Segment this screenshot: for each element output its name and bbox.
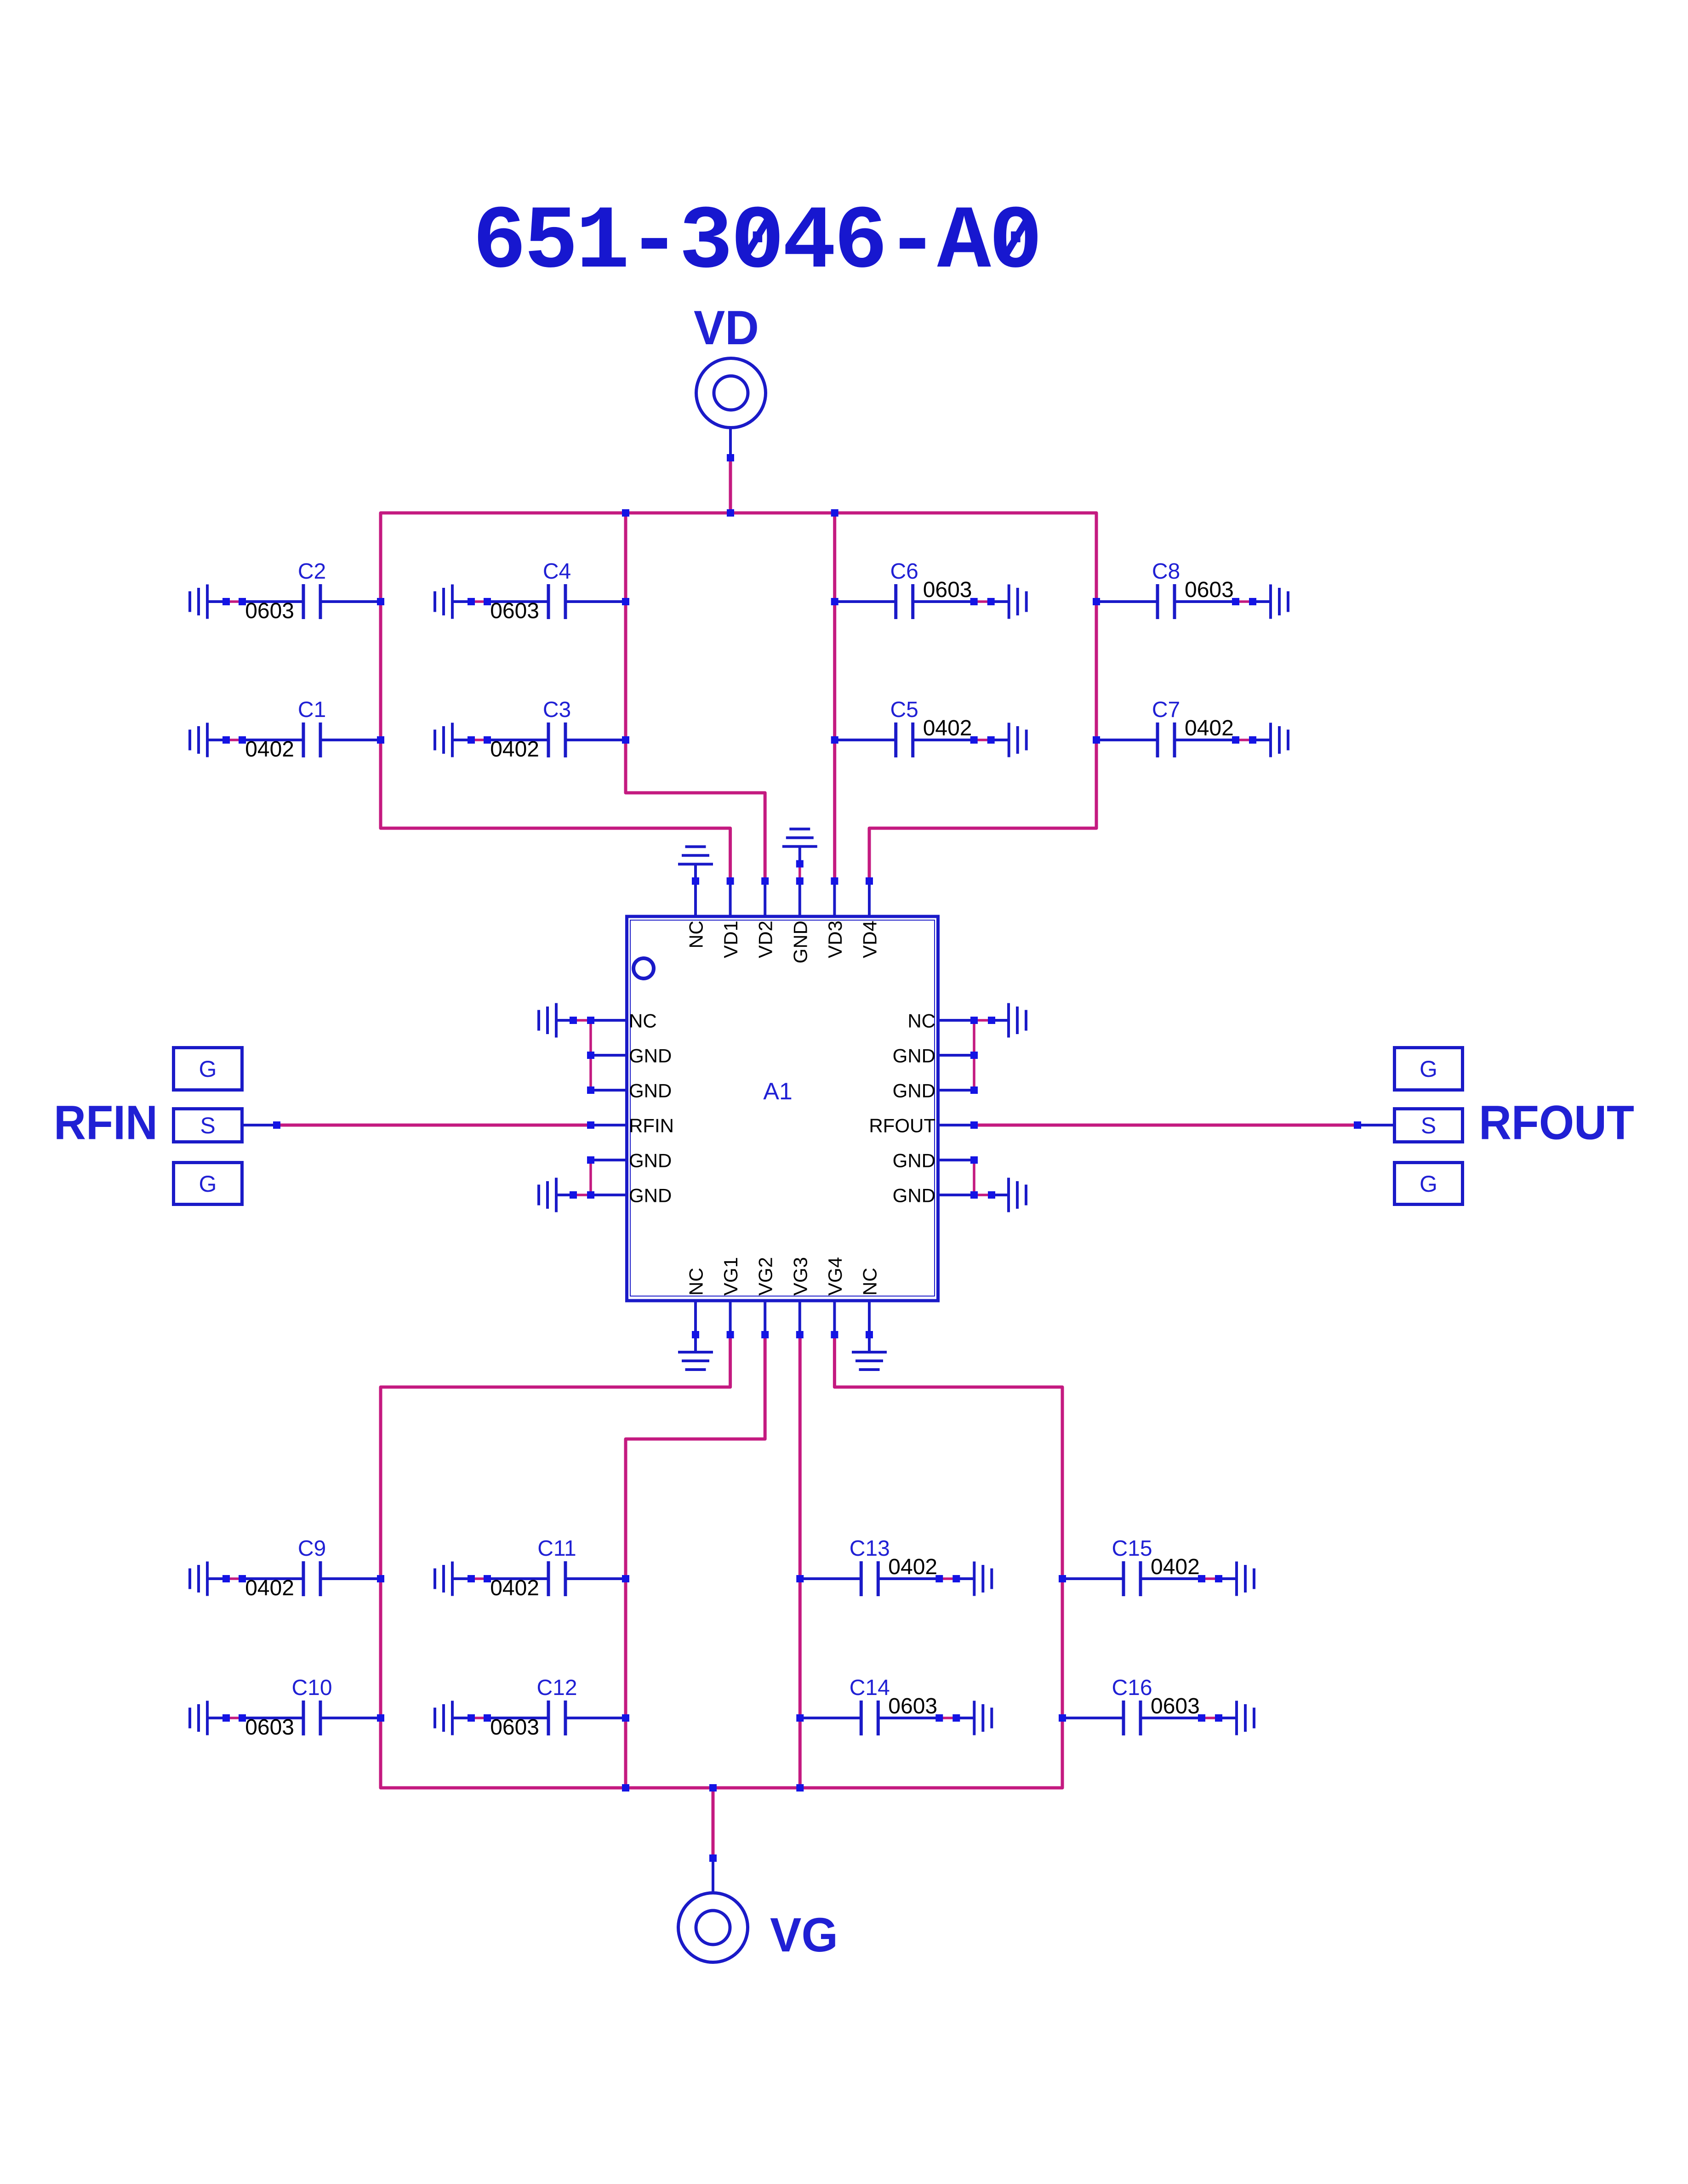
svg-text:C9: C9 bbox=[298, 1536, 326, 1561]
ground (for C4) bbox=[451, 585, 454, 619]
svg-text:GND: GND bbox=[629, 1045, 672, 1067]
svg-text:NC: NC bbox=[629, 1010, 657, 1032]
wire pin lead VG4 (bottom) bbox=[833, 1302, 836, 1335]
svg-text:GND: GND bbox=[893, 1150, 935, 1172]
wire VG2 net (C11/C12 bus with jog) bbox=[626, 1335, 765, 1788]
junction C1 bus bbox=[377, 736, 384, 744]
junction C4 ground side A bbox=[468, 598, 475, 605]
pin pad GND (left) bbox=[587, 1156, 594, 1164]
pin pad NC (top) bbox=[692, 877, 699, 885]
connector VD (inner ring) bbox=[714, 376, 748, 410]
svg-text:C15: C15 bbox=[1112, 1536, 1152, 1561]
wire pin lead NC (bottom) bbox=[694, 1302, 697, 1335]
ground (for C9) bbox=[206, 1562, 209, 1596]
svg-text:651-3046-A0: 651-3046-A0 bbox=[473, 192, 1043, 294]
junction C8 ground side B bbox=[1249, 598, 1256, 605]
wire C7 right lead bbox=[1175, 739, 1236, 741]
svg-text:S: S bbox=[1421, 1113, 1436, 1138]
svg-text:G: G bbox=[1420, 1056, 1437, 1082]
wire C4 ground stem bbox=[452, 600, 471, 603]
capacitor C1 bbox=[302, 722, 305, 757]
junction VD feed / top bus bbox=[727, 509, 734, 517]
op-amp/IC A1 body (outer) bbox=[627, 916, 938, 1301]
junction C1 ground side B bbox=[239, 736, 246, 744]
wire right lower pin trunk bbox=[973, 1160, 975, 1195]
svg-text:RFIN: RFIN bbox=[54, 1096, 158, 1150]
wire C13 right lead bbox=[878, 1577, 939, 1580]
svg-text:0603: 0603 bbox=[245, 1715, 294, 1740]
junction C16 bus bbox=[1059, 1714, 1066, 1722]
wire C2 right lead bbox=[320, 600, 381, 603]
svg-text:0603: 0603 bbox=[888, 1694, 937, 1718]
svg-text:C14: C14 bbox=[850, 1676, 890, 1700]
svg-text:C12: C12 bbox=[536, 1676, 577, 1700]
pad box G (RFOUT bottom) bbox=[1395, 1163, 1463, 1205]
junction C12 ground side A bbox=[468, 1714, 475, 1722]
svg-text:C16: C16 bbox=[1112, 1676, 1152, 1700]
wire C8 ground stem bbox=[1253, 600, 1271, 603]
wire pin lead GND (right) bbox=[940, 1194, 974, 1196]
IC A1 pin-1 mark bbox=[633, 958, 654, 978]
svg-text:G: G bbox=[199, 1171, 217, 1197]
ground (for C5) bbox=[1008, 723, 1010, 757]
pin pad GND (right) bbox=[970, 1156, 978, 1164]
junction C7 ground side A bbox=[1232, 736, 1239, 744]
junction C10 bus bbox=[377, 1714, 384, 1722]
wire pin lead VD1 (top) bbox=[729, 881, 732, 915]
junction C7 bus bbox=[1093, 736, 1100, 744]
junction C15 bus bbox=[1059, 1575, 1066, 1582]
capacitor C12 bbox=[547, 1701, 550, 1735]
ground (left upper, NC/GND) bbox=[555, 1003, 558, 1038]
capacitor C14 bbox=[860, 1701, 863, 1735]
wire left upper pin trunk bbox=[589, 1020, 592, 1090]
ground (for C13) bbox=[973, 1562, 975, 1596]
wire left upper ground stem bbox=[556, 1019, 573, 1022]
junction C16 ground side A bbox=[1198, 1714, 1205, 1722]
wire pin lead GND (right) bbox=[940, 1159, 974, 1161]
wire left lower ground link bbox=[573, 1194, 591, 1196]
wire VD bus loop (C1/C2 bus, top bus, C7/C8 bus, VD1/VD4 jogs) bbox=[381, 513, 1096, 881]
wire C7 ground stem bbox=[1253, 739, 1271, 741]
junction right upper ground bbox=[988, 1017, 995, 1024]
junction C11 bus bbox=[622, 1575, 629, 1582]
wire RFIN net bbox=[277, 1124, 591, 1127]
wire pin lead GND (right) bbox=[940, 1054, 974, 1057]
ground (bottom-right NC pin) bbox=[852, 1351, 887, 1354]
svg-text:G: G bbox=[199, 1056, 217, 1082]
pin pad VD3 (top) bbox=[831, 877, 838, 885]
wire C12 right lead bbox=[565, 1717, 626, 1719]
junction VG feed / bottom bus bbox=[709, 1784, 717, 1792]
wire VG connector stem bbox=[712, 1858, 714, 1893]
wire pin lead NC (left) bbox=[591, 1019, 625, 1022]
pin pad GND (left) bbox=[587, 1086, 594, 1094]
wire C2 ground stem bbox=[207, 600, 226, 603]
junction C15 ground side B bbox=[1215, 1575, 1222, 1582]
wire C13 left lead bbox=[800, 1577, 861, 1580]
wire C6 ground link bbox=[974, 600, 991, 603]
svg-text:VD1: VD1 bbox=[720, 921, 741, 958]
junction C1 ground side A bbox=[222, 736, 230, 744]
junction C11 ground side B bbox=[484, 1575, 491, 1582]
svg-text:C13: C13 bbox=[850, 1536, 890, 1561]
pin pad NC (left) bbox=[587, 1017, 594, 1024]
wire C5 ground stem bbox=[991, 739, 1009, 741]
ground (right lower, GND/GND) bbox=[1007, 1178, 1010, 1212]
svg-text:NC: NC bbox=[907, 1010, 935, 1032]
svg-text:VG: VG bbox=[770, 1908, 838, 1962]
svg-text:0402: 0402 bbox=[1185, 716, 1234, 740]
ground (for C6) bbox=[1008, 585, 1010, 619]
svg-text:VG1: VG1 bbox=[720, 1257, 741, 1296]
junction left upper ground bbox=[570, 1017, 577, 1024]
wire C11 ground stem bbox=[452, 1577, 471, 1580]
slashed zero stroke bbox=[744, 214, 771, 258]
wire pin lead VD3 (top) bbox=[833, 881, 836, 915]
svg-text:VG2: VG2 bbox=[755, 1257, 776, 1296]
connector VG (outer ring) bbox=[679, 1893, 748, 1962]
svg-text:0402: 0402 bbox=[245, 737, 294, 762]
wire C11 right lead bbox=[565, 1577, 626, 1580]
junction C11 ground side A bbox=[468, 1575, 475, 1582]
wire VG bus loop (C9/C10 bus, bottom bus, C15/C16 bus, VG1/VG4 jogs) bbox=[381, 1335, 1062, 1788]
capacitor C13 bbox=[860, 1561, 863, 1596]
IC A1 body (inner line) bbox=[630, 920, 935, 1296]
capacitor C10 bbox=[302, 1701, 305, 1735]
svg-text:0603: 0603 bbox=[1185, 578, 1234, 602]
pad box S (RFIN) bbox=[174, 1109, 242, 1142]
wire C1 right lead bbox=[320, 739, 381, 741]
wire C7 left lead bbox=[1096, 739, 1158, 741]
wire top GND ground stem bbox=[798, 847, 801, 864]
pin pad VD2 (top) bbox=[761, 877, 769, 885]
svg-text:0603: 0603 bbox=[1151, 1694, 1200, 1718]
wire C1 left lead bbox=[242, 739, 303, 741]
pad box G (RFIN bottom) bbox=[174, 1163, 242, 1205]
wire C4 right lead bbox=[565, 600, 626, 603]
capacitor C5 bbox=[894, 722, 897, 757]
svg-text:GND: GND bbox=[893, 1080, 935, 1102]
junction C2 ground side A bbox=[222, 598, 230, 605]
ground (for C3) bbox=[451, 723, 454, 757]
wire C11 ground link bbox=[471, 1577, 487, 1580]
svg-text:C10: C10 bbox=[291, 1676, 332, 1700]
junction VD connector stem bbox=[727, 454, 734, 461]
pad box G (RFOUT top) bbox=[1395, 1048, 1463, 1090]
junction C8 ground side A bbox=[1232, 598, 1239, 605]
svg-text:C8: C8 bbox=[1152, 559, 1180, 584]
junction C14 bus bbox=[796, 1714, 804, 1722]
wire C14 right lead bbox=[878, 1717, 939, 1719]
junction C6 ground side B bbox=[987, 598, 995, 605]
pin pad GND (left) bbox=[587, 1191, 594, 1199]
junction C16 ground side B bbox=[1215, 1714, 1222, 1722]
svg-text:VD2: VD2 bbox=[755, 921, 776, 958]
wire top NC ground stem bbox=[694, 864, 697, 881]
junction C3 ground side A bbox=[468, 736, 475, 744]
junction C3 ground side B bbox=[484, 736, 491, 744]
wire VG feed net bbox=[712, 1788, 715, 1858]
wire top GND ground link bbox=[798, 864, 801, 882]
svg-text:RFOUT: RFOUT bbox=[1479, 1096, 1634, 1150]
junction VG connector stem bbox=[709, 1854, 717, 1862]
capacitor C8 bbox=[1156, 584, 1159, 619]
svg-text:GND: GND bbox=[629, 1080, 672, 1102]
wire C6 ground stem bbox=[991, 600, 1009, 603]
ground (left lower, GND/GND) bbox=[555, 1178, 558, 1212]
svg-text:0402: 0402 bbox=[923, 716, 972, 740]
wire C14 left lead bbox=[800, 1717, 861, 1719]
junction VG3 net / bottom bus bbox=[796, 1784, 804, 1792]
wire C5 left lead bbox=[835, 739, 896, 741]
junction top GND ground bbox=[796, 860, 804, 868]
junction C12 ground side B bbox=[484, 1714, 491, 1722]
connector VG (inner ring) bbox=[696, 1911, 730, 1945]
svg-text:GND: GND bbox=[629, 1150, 672, 1172]
wire C12 ground link bbox=[471, 1717, 487, 1719]
ground (for C15) bbox=[1235, 1562, 1238, 1596]
wire VD3 net (C5/C6 bus) bbox=[833, 513, 836, 881]
svg-text:0603: 0603 bbox=[245, 599, 294, 623]
wire right upper ground stem bbox=[992, 1019, 1009, 1022]
wire C2 left lead bbox=[242, 600, 303, 603]
junction C13 ground side A bbox=[935, 1575, 943, 1582]
wire C4 ground link bbox=[471, 600, 487, 603]
junction RFIN stub bbox=[273, 1121, 280, 1129]
junction C4 ground side B bbox=[484, 598, 491, 605]
wire C15 ground stem bbox=[1219, 1577, 1237, 1580]
wire C10 left lead bbox=[242, 1717, 303, 1719]
wire C3 ground stem bbox=[452, 739, 471, 741]
wire C11 left lead bbox=[487, 1577, 548, 1580]
wire C13 ground link bbox=[939, 1577, 956, 1580]
svg-text:VG4: VG4 bbox=[824, 1257, 846, 1296]
svg-text:0402: 0402 bbox=[1151, 1555, 1200, 1579]
svg-text:A1: A1 bbox=[763, 1078, 793, 1105]
pin pad VG2 (bottom) bbox=[761, 1331, 769, 1338]
capacitor C3 bbox=[547, 722, 550, 757]
svg-text:0402: 0402 bbox=[490, 737, 539, 762]
connector VD (outer ring) bbox=[696, 358, 766, 428]
ground (for C11) bbox=[451, 1562, 454, 1596]
capacitor C7 bbox=[1156, 722, 1159, 757]
svg-text:0603: 0603 bbox=[923, 578, 972, 602]
wire C8 left lead bbox=[1096, 600, 1158, 603]
wire pin lead GND (right) bbox=[940, 1089, 974, 1092]
wire VD connector stem bbox=[729, 428, 732, 458]
svg-text:RFOUT: RFOUT bbox=[869, 1115, 935, 1137]
wire left lower ground stem bbox=[556, 1194, 573, 1196]
wire C1 ground link bbox=[226, 739, 242, 741]
svg-text:GND: GND bbox=[629, 1185, 672, 1206]
capacitor C16 bbox=[1122, 1701, 1125, 1735]
wire right upper pin trunk bbox=[973, 1020, 975, 1090]
wire bottom-left NC ground stem bbox=[694, 1335, 697, 1352]
ground (for C16) bbox=[1235, 1701, 1238, 1735]
wire C16 right lead bbox=[1141, 1717, 1202, 1719]
pad box S (RFOUT) bbox=[1395, 1109, 1463, 1142]
capacitor C6 bbox=[894, 584, 897, 619]
junction C2 ground side B bbox=[239, 598, 246, 605]
svg-text:C1: C1 bbox=[298, 698, 326, 722]
pin pad GND (left) bbox=[587, 1052, 594, 1059]
wire C16 ground stem bbox=[1219, 1717, 1237, 1719]
wire pin lead NC (bottom) bbox=[868, 1302, 871, 1335]
svg-text:GND: GND bbox=[893, 1185, 935, 1206]
wire C13 ground stem bbox=[956, 1577, 974, 1580]
junction C8 bus bbox=[1093, 598, 1100, 605]
junction C5 ground side A bbox=[970, 736, 978, 744]
wire VD2 net (C3/C4 bus with jog) bbox=[626, 513, 765, 881]
wire C6 left lead bbox=[835, 600, 896, 603]
svg-text:NC: NC bbox=[859, 1268, 881, 1296]
wire pin lead VD4 (top) bbox=[868, 881, 871, 915]
wire C5 right lead bbox=[913, 739, 974, 741]
svg-text:0603: 0603 bbox=[490, 599, 539, 623]
wire RFIN stub bbox=[244, 1124, 277, 1126]
wire left upper ground link bbox=[573, 1019, 591, 1022]
wire C9 ground link bbox=[226, 1577, 242, 1580]
wire C12 ground stem bbox=[452, 1717, 471, 1719]
junction C4 bus bbox=[622, 598, 629, 605]
wire C1 ground stem bbox=[207, 739, 226, 741]
pin pad VD4 (top) bbox=[866, 877, 873, 885]
wire pin lead VG1 (bottom) bbox=[729, 1302, 732, 1335]
slashed zero stroke bbox=[1004, 214, 1030, 258]
ground (right upper, NC/GND) bbox=[1007, 1003, 1010, 1038]
junction C10 ground side B bbox=[239, 1714, 246, 1722]
wire C15 left lead bbox=[1062, 1577, 1123, 1580]
wire RFOUT net bbox=[974, 1124, 1357, 1127]
svg-text:C2: C2 bbox=[298, 559, 326, 584]
ground (for C10) bbox=[206, 1701, 209, 1735]
wire C12 left lead bbox=[487, 1717, 548, 1719]
wire bottom-right NC ground stem bbox=[868, 1335, 871, 1352]
svg-text:VD4: VD4 bbox=[859, 921, 881, 958]
wire C4 left lead bbox=[487, 600, 548, 603]
wire C10 right lead bbox=[320, 1717, 381, 1719]
wire pin lead RFIN (left) bbox=[591, 1124, 625, 1126]
svg-text:S: S bbox=[200, 1113, 215, 1138]
pin pad RFIN (left) bbox=[587, 1121, 594, 1129]
svg-text:VD: VD bbox=[694, 301, 759, 355]
wire right lower ground stem bbox=[992, 1194, 1009, 1196]
pin pad GND (right) bbox=[970, 1191, 978, 1199]
capacitor C11 bbox=[547, 1561, 550, 1596]
svg-text:C4: C4 bbox=[543, 559, 571, 584]
junction C13 bus bbox=[796, 1575, 804, 1582]
junction C5 ground side B bbox=[987, 736, 995, 744]
pin pad RFOUT (right) bbox=[970, 1121, 978, 1129]
wire C3 ground link bbox=[471, 739, 487, 741]
ground (top GND pin) bbox=[782, 845, 817, 848]
pin pad NC (bottom) bbox=[866, 1331, 873, 1338]
capacitor C4 bbox=[547, 584, 550, 619]
wire C3 left lead bbox=[487, 739, 548, 741]
junction C3 bus bbox=[622, 736, 629, 744]
svg-text:C7: C7 bbox=[1152, 698, 1180, 722]
svg-text:C5: C5 bbox=[890, 698, 918, 722]
wire C9 ground stem bbox=[207, 1577, 226, 1580]
wire C8 right lead bbox=[1175, 600, 1236, 603]
svg-text:NC: NC bbox=[685, 921, 707, 949]
svg-text:VG3: VG3 bbox=[789, 1257, 811, 1296]
junction C2 bus bbox=[377, 598, 384, 605]
pin pad GND (top) bbox=[796, 877, 804, 885]
ground (top NC pin) bbox=[678, 863, 713, 865]
wire pin lead RFOUT (right) bbox=[940, 1124, 974, 1126]
junction C7 ground side B bbox=[1249, 736, 1256, 744]
svg-text:NC: NC bbox=[685, 1268, 707, 1296]
wire pin lead NC (right) bbox=[940, 1019, 974, 1022]
svg-text:0402: 0402 bbox=[888, 1555, 937, 1579]
wire C3 right lead bbox=[565, 739, 626, 741]
pad box G (RFIN top) bbox=[174, 1048, 242, 1090]
junction C6 ground side A bbox=[970, 598, 978, 605]
wire C14 ground link bbox=[939, 1717, 956, 1719]
wire C15 ground link bbox=[1202, 1577, 1219, 1580]
junction C5 bus bbox=[831, 736, 838, 744]
svg-text:C6: C6 bbox=[890, 559, 918, 584]
wire C9 right lead bbox=[320, 1577, 381, 1580]
capacitor C9 bbox=[302, 1561, 305, 1596]
pin pad VG4 (bottom) bbox=[831, 1331, 838, 1338]
svg-text:GND: GND bbox=[893, 1045, 935, 1067]
pin pad GND (right) bbox=[970, 1086, 978, 1094]
wire left lower pin trunk bbox=[589, 1160, 592, 1195]
ground (for C1) bbox=[206, 723, 209, 757]
ground (for C8) bbox=[1269, 585, 1272, 619]
junction VG2 net / bottom bus bbox=[622, 1784, 629, 1792]
pin pad GND (right) bbox=[970, 1052, 978, 1059]
junction C14 ground side B bbox=[952, 1714, 960, 1722]
ground (bottom-left NC pin) bbox=[678, 1351, 713, 1354]
wire C10 ground stem bbox=[207, 1717, 226, 1719]
pin pad VD1 (top) bbox=[727, 877, 734, 885]
wire C14 ground stem bbox=[956, 1717, 974, 1719]
ground (for C14) bbox=[973, 1701, 975, 1735]
wire C16 left lead bbox=[1062, 1717, 1123, 1719]
wire RFOUT stub bbox=[1357, 1124, 1393, 1126]
junction C14 ground side A bbox=[935, 1714, 943, 1722]
junction C10 ground side A bbox=[222, 1714, 230, 1722]
wire pin lead GND (left) bbox=[591, 1089, 625, 1092]
wire pin lead VD2 (top) bbox=[764, 881, 766, 915]
junction C12 bus bbox=[622, 1714, 629, 1722]
junction C9 ground side B bbox=[239, 1575, 246, 1582]
svg-text:GND: GND bbox=[789, 921, 811, 963]
wire pin lead VG3 (bottom) bbox=[798, 1302, 801, 1335]
wire pin lead GND (left) bbox=[591, 1054, 625, 1057]
svg-text:RFIN: RFIN bbox=[629, 1115, 674, 1137]
pin pad NC (right) bbox=[970, 1017, 978, 1024]
junction left lower ground bbox=[570, 1191, 577, 1199]
pin pad NC (bottom) bbox=[692, 1331, 699, 1338]
junction C9 bus bbox=[377, 1575, 384, 1582]
junction C15 ground side A bbox=[1198, 1575, 1205, 1582]
wire C8 ground link bbox=[1236, 600, 1253, 603]
svg-text:G: G bbox=[1420, 1171, 1437, 1197]
junction C6 bus bbox=[831, 598, 838, 605]
svg-text:0603: 0603 bbox=[490, 1715, 539, 1740]
wire pin lead VG2 (bottom) bbox=[764, 1302, 766, 1335]
wire C6 right lead bbox=[913, 600, 974, 603]
junction C9 ground side A bbox=[222, 1575, 230, 1582]
wire pin lead GND (top) bbox=[798, 881, 801, 915]
wire C5 ground link bbox=[974, 739, 991, 741]
wire C2 ground link bbox=[226, 600, 242, 603]
